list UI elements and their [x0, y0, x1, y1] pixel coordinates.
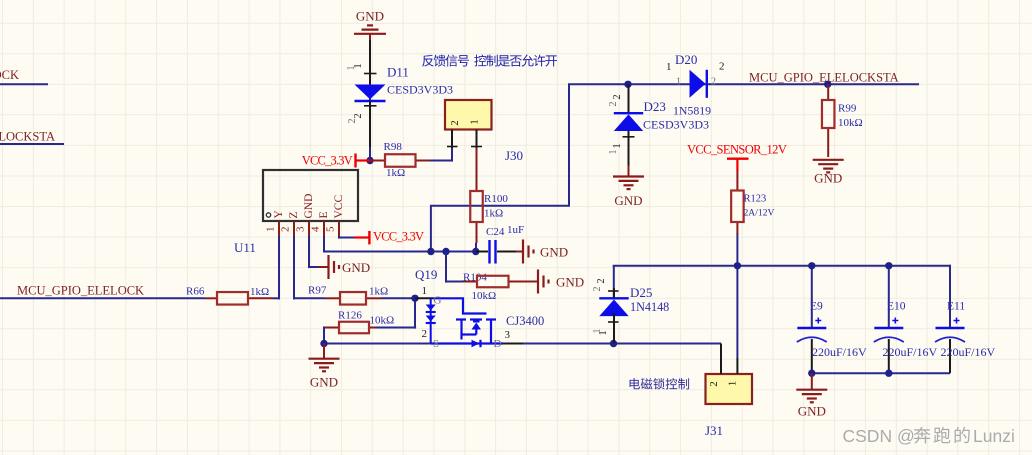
svg-text:2: 2	[596, 278, 607, 283]
svg-text:GND: GND	[356, 9, 384, 24]
svg-text:GND: GND	[310, 375, 338, 390]
svg-text:VCC_3.3V: VCC_3.3V	[373, 230, 424, 244]
svg-text:Z: Z	[288, 211, 300, 218]
svg-text:E10: E10	[887, 301, 906, 313]
svg-text:3: 3	[295, 226, 307, 232]
svg-text:2A/12V: 2A/12V	[744, 208, 775, 219]
svg-text:E: E	[318, 211, 330, 218]
svg-text:1: 1	[612, 143, 623, 148]
svg-text:1kΩ: 1kΩ	[250, 286, 269, 298]
svg-text:VCC: VCC	[333, 195, 345, 219]
svg-text:R97: R97	[308, 285, 327, 297]
svg-text:GND: GND	[614, 193, 642, 208]
svg-text:CSDN @: CSDN @	[843, 426, 915, 446]
svg-text:S: S	[433, 338, 439, 350]
svg-text:R98: R98	[384, 141, 403, 153]
svg-text:VCC_SENSOR_12V: VCC_SENSOR_12V	[687, 143, 787, 157]
svg-text:R66: R66	[186, 286, 205, 298]
svg-text:4: 4	[310, 226, 322, 232]
svg-text:2: 2	[422, 328, 428, 340]
svg-text:2: 2	[719, 61, 725, 73]
svg-text:VCC_3.3V: VCC_3.3V	[302, 154, 353, 168]
svg-text:10kΩ: 10kΩ	[370, 315, 395, 327]
svg-text:R100: R100	[484, 193, 508, 205]
svg-text:2: 2	[711, 77, 716, 88]
svg-text:1: 1	[265, 227, 277, 233]
svg-text:E11: E11	[947, 301, 965, 313]
svg-text:2: 2	[608, 102, 619, 107]
svg-text:1: 1	[676, 77, 681, 88]
svg-text:GND: GND	[798, 404, 826, 419]
svg-text:2: 2	[449, 120, 461, 126]
svg-text:2: 2	[592, 287, 603, 292]
svg-text:Lunzi: Lunzi	[973, 426, 1015, 446]
svg-text:D23: D23	[644, 99, 666, 114]
svg-text:MCU_GPIO_ELELOCK: MCU_GPIO_ELELOCK	[17, 284, 144, 298]
svg-text:220uF/16V: 220uF/16V	[812, 345, 867, 359]
svg-text:GND: GND	[342, 260, 370, 275]
svg-text:10kΩ: 10kΩ	[838, 117, 863, 129]
svg-text:R123: R123	[744, 194, 767, 205]
svg-text:GND: GND	[556, 275, 584, 290]
svg-text:E9: E9	[810, 301, 823, 313]
svg-text:D11: D11	[387, 65, 409, 80]
svg-text:GND: GND	[540, 245, 568, 260]
svg-text:2: 2	[353, 113, 364, 118]
svg-text:220uF/16V: 220uF/16V	[941, 345, 996, 359]
svg-text:1: 1	[346, 66, 357, 71]
svg-text:1: 1	[727, 381, 739, 387]
svg-text:R99: R99	[838, 103, 857, 115]
svg-text:1: 1	[608, 150, 619, 155]
svg-text:1kΩ: 1kΩ	[369, 286, 388, 298]
svg-text:GND: GND	[814, 171, 842, 186]
svg-text:10kΩ: 10kΩ	[472, 290, 497, 302]
svg-text:1N4148: 1N4148	[630, 300, 669, 314]
svg-text:1kΩ: 1kΩ	[386, 167, 405, 179]
svg-text:1: 1	[592, 329, 603, 334]
svg-text:D25: D25	[630, 285, 652, 300]
svg-text:2: 2	[708, 381, 720, 387]
svg-text:CESD3V3D3: CESD3V3D3	[643, 118, 709, 132]
svg-text:1: 1	[422, 285, 428, 297]
svg-text:1uF: 1uF	[507, 224, 524, 236]
svg-text:MCU_GPIO_ELELOCKSTA: MCU_GPIO_ELELOCKSTA	[749, 71, 899, 85]
svg-text:2: 2	[280, 227, 292, 233]
svg-text:2: 2	[612, 94, 623, 99]
svg-text:5: 5	[325, 226, 337, 232]
svg-text:MCU_GPIO_ELELOCKSTA: MCU_GPIO_ELELOCKSTA	[0, 130, 55, 144]
svg-text:1N5819: 1N5819	[673, 104, 711, 118]
svg-text:Q19: Q19	[415, 267, 437, 282]
svg-text:2: 2	[347, 119, 358, 124]
svg-text:3: 3	[505, 329, 511, 341]
svg-text:1: 1	[666, 61, 672, 73]
svg-text:GND: GND	[303, 194, 315, 219]
svg-text:MCU_GPIO_ELELOCK: MCU_GPIO_ELELOCK	[0, 68, 19, 82]
svg-text:220uF/16V: 220uF/16V	[883, 345, 938, 359]
svg-text:CJ3400: CJ3400	[506, 314, 544, 328]
svg-text:1: 1	[469, 119, 481, 125]
svg-text:Y: Y	[273, 210, 285, 219]
svg-text:C24: C24	[486, 226, 505, 238]
svg-text:R126: R126	[338, 310, 362, 322]
svg-text:D20: D20	[675, 52, 697, 67]
svg-text:CESD3V3D3: CESD3V3D3	[387, 83, 453, 97]
svg-text:1kΩ: 1kΩ	[484, 208, 503, 220]
svg-text:U11: U11	[234, 240, 256, 255]
svg-text:G: G	[434, 295, 442, 307]
svg-text:J30: J30	[505, 148, 523, 163]
svg-text:J31: J31	[705, 423, 723, 438]
svg-text:D: D	[494, 338, 502, 350]
